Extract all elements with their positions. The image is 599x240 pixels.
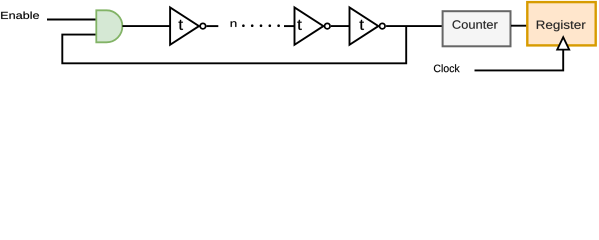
- inverter 2 triangle: [295, 7, 324, 44]
- Register box: [527, 2, 595, 45]
- inverter 1 triangle: [170, 7, 199, 44]
- inverter 2 bubble: [325, 23, 331, 29]
- wire inverter 2 to inverter 3: [331, 25, 350, 27]
- inverter 3 label t: [359, 20, 363, 30]
- label Clock: [434, 64, 460, 72]
- Counter label: [453, 20, 498, 28]
- label n: [231, 21, 237, 27]
- wire feedback loop: AND bottom input, down, along bottom, up to node after inverter chain: [62, 26, 406, 63]
- wire stub into inverter 2: [284, 25, 294, 27]
- Register label: [537, 20, 586, 31]
- dotted wire (omitted inverters): [242, 24, 245, 27]
- inverter 1 label t: [179, 20, 183, 30]
- wire AND output to inverter 1: [122, 25, 169, 27]
- inverter 3 triangle: [350, 7, 379, 44]
- wire inverter 3 to Counter (passes junction node): [386, 25, 442, 27]
- label Enable: [1, 11, 39, 19]
- Counter box: [443, 11, 511, 46]
- AND gate U1: [96, 10, 122, 42]
- wire Clock to Register: [475, 50, 564, 71]
- inverter 3 bubble: [380, 23, 386, 29]
- arrowhead into Register: [557, 37, 569, 49]
- wire Enable to AND top input: [47, 19, 96, 21]
- wire Counter to Register: [511, 25, 527, 27]
- inverter 2 label t: [297, 20, 301, 30]
- wire inverter 1 output stub: [207, 25, 219, 27]
- inverter 1 bubble: [200, 23, 206, 29]
